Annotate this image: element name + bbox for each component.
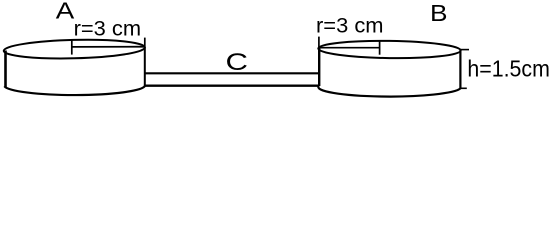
radius centre tick of B xyxy=(379,41,381,55)
height tick bottom xyxy=(460,87,466,89)
height tick top xyxy=(460,49,469,51)
svg-text:A: A xyxy=(56,0,75,24)
cylinder B top ellipse xyxy=(318,40,461,59)
svg-text:r=3 cm: r=3 cm xyxy=(74,17,142,41)
svg-text:h=1.5cm: h=1.5cm xyxy=(467,56,550,82)
svg-text:C: C xyxy=(226,49,249,76)
cylinder A left side wall xyxy=(4,51,7,88)
cylinder B right side wall xyxy=(459,50,461,89)
radius edge tick of A xyxy=(144,38,146,48)
cylinder B bottom arc xyxy=(318,86,460,97)
connecting bar top line xyxy=(145,72,319,74)
svg-text:B: B xyxy=(430,0,448,26)
svg-text:r=3 cm: r=3 cm xyxy=(316,14,384,38)
radius line of A xyxy=(72,46,145,48)
cylinder B left side wall xyxy=(318,48,320,86)
cylinder A right side wall xyxy=(144,47,146,86)
radius edge tick of B xyxy=(318,37,320,48)
cylinder A bottom arc xyxy=(4,86,145,95)
radius line of B xyxy=(319,47,380,49)
connecting bar bottom line xyxy=(145,84,319,86)
radius centre tick of A xyxy=(71,40,73,55)
cylinder A top ellipse xyxy=(3,38,145,60)
